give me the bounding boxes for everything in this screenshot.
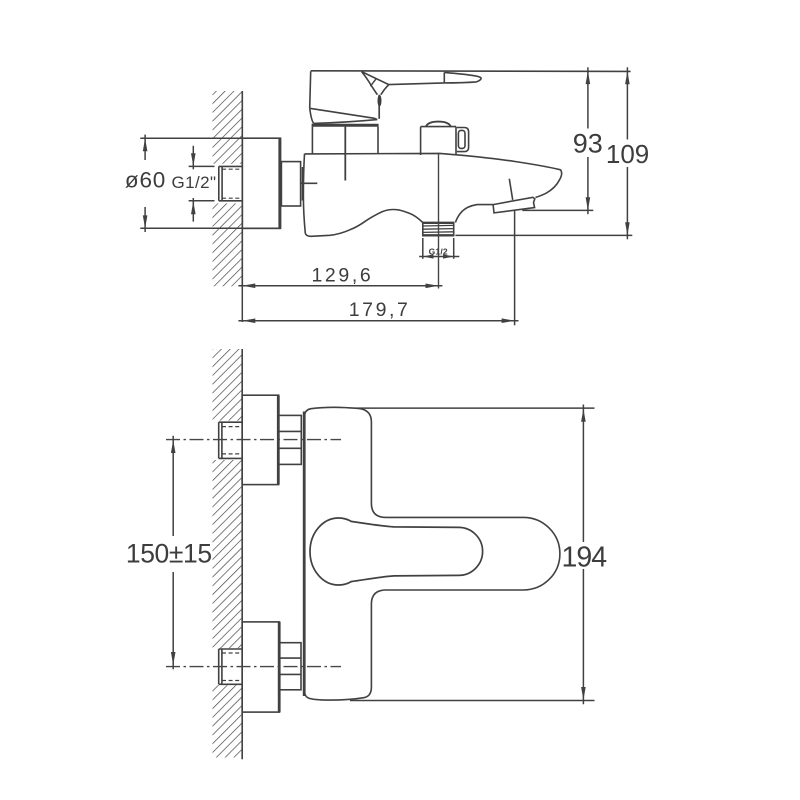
dimension 93 — [522, 67, 593, 214]
svg-text:G1/2: G1/2 — [429, 246, 448, 256]
svg-text:194: 194 — [562, 542, 608, 574]
wall pipe G1/2 (side view) — [219, 166, 243, 200]
diverter pull ring — [457, 128, 469, 152]
lower wall pipe — [219, 649, 243, 684]
dimension 179,7 — [238, 318, 518, 323]
lower eccentric flange — [242, 622, 279, 712]
flange thick right edge — [278, 138, 281, 228]
svg-text:ø60: ø60 — [125, 168, 166, 193]
svg-text:129,6: 129,6 — [311, 265, 373, 287]
diverter knob (side view) — [421, 122, 456, 156]
body underside left of outlet — [303, 154, 422, 237]
svg-text:93: 93 — [573, 128, 603, 158]
dimension o60 — [140, 135, 281, 232]
dimension 150+-15 — [171, 436, 176, 670]
shower outlet threads (side view) — [422, 223, 454, 237]
wall hatch (side view) — [213, 91, 243, 286]
collar thick band — [312, 124, 379, 127]
adapter nut (side view) — [281, 162, 300, 206]
lower nut — [280, 643, 302, 690]
lever arm bottom (side view) — [389, 83, 445, 85]
upper mount centerline — [166, 439, 341, 441]
svg-text:G1/2": G1/2" — [172, 173, 217, 192]
shower hose holder (side view) — [493, 197, 535, 213]
upper wall pipe — [219, 422, 243, 458]
dimension G1/2" — [189, 146, 215, 222]
handle body (side view) — [310, 71, 378, 123]
dimension 109 — [455, 67, 632, 239]
lower mount centerline — [166, 666, 341, 668]
flange escutcheon (side view) — [242, 138, 280, 228]
handle (front view) — [310, 518, 483, 585]
svg-text:179,7: 179,7 — [349, 299, 411, 321]
wall face line (front view) — [241, 349, 243, 759]
handle top line + extension — [311, 70, 631, 73]
extension for 179,7 — [514, 211, 516, 326]
svg-text:150±15: 150±15 — [126, 539, 212, 569]
lever neck (side view) — [362, 72, 389, 119]
svg-text:109: 109 — [606, 139, 649, 169]
lever pivot pin — [378, 95, 382, 107]
wall face extension line — [241, 286, 243, 322]
holder pin tick — [509, 179, 512, 200]
wall face line (side view) — [241, 91, 243, 286]
lever blade tip — [444, 72, 481, 83]
inlet center tick — [301, 182, 317, 184]
body front thick left edge — [303, 412, 306, 697]
cartridge collar (side view) — [312, 127, 378, 181]
wall hatch (front view) — [213, 349, 243, 758]
body outline (side view) — [305, 153, 562, 197]
dimension G1/2 outlet — [419, 238, 459, 259]
body (front view) — [304, 407, 559, 700]
centerline of shower outlet — [438, 153, 440, 289]
body underside right of outlet — [455, 205, 493, 223]
dimension 194 — [350, 405, 595, 705]
upper nut — [279, 415, 302, 464]
dimension 129,6 — [238, 284, 442, 289]
body connect face — [302, 167, 304, 201]
upper eccentric flange — [242, 395, 278, 484]
